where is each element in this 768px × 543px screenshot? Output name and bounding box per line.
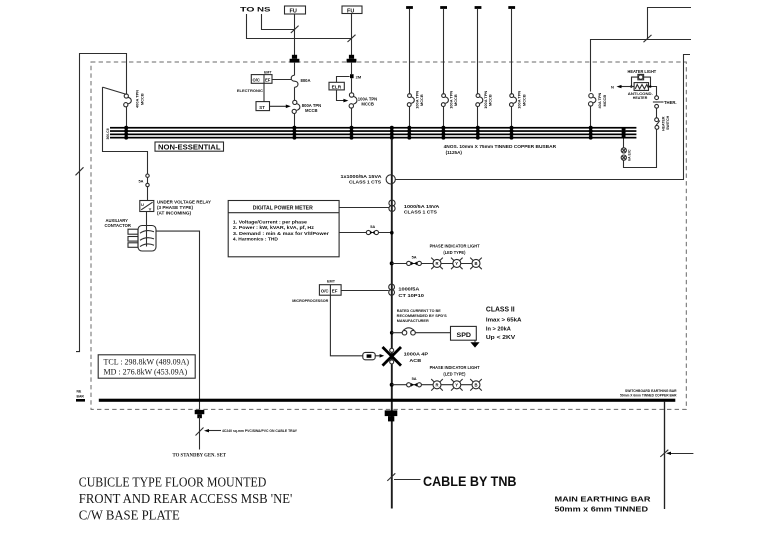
label CT1 xyxy=(341,174,383,185)
svg-text:2. Power : kW, kVAR, kVA,: 2. Power : kW, kVAR, kVA, pf, Hz xyxy=(233,225,314,230)
svg-text:TO: TO xyxy=(240,8,255,14)
earthing bar stub outside xyxy=(76,399,85,402)
label non-essential xyxy=(155,142,224,152)
contactor K1 auxiliary xyxy=(128,223,156,251)
wire FU2 drop xyxy=(351,14,353,56)
wire fuse to UV relay xyxy=(147,187,149,201)
circuit breaker ACB 1000A 4P xyxy=(383,347,429,366)
svg-text:5A: 5A xyxy=(370,224,375,229)
current transformer CT1 metering xyxy=(386,175,395,184)
svg-text:1000/5A 15VA: 1000/5A 15VA xyxy=(404,204,440,209)
svg-text:U: U xyxy=(141,202,144,207)
svg-text:RECOMMENDED BY SPD'S: RECOMMENDED BY SPD'S xyxy=(397,314,447,318)
wire slash on TNB cable xyxy=(387,473,395,481)
wire incomer1 below termination xyxy=(294,62,296,75)
circuit breaker incomer2 100A TPN MCCB xyxy=(349,93,377,108)
wire relay to ST box xyxy=(263,83,265,101)
fuse 5A phase indicator 1 xyxy=(407,255,422,266)
svg-text:CLASS 1 CTS: CLASS 1 CTS xyxy=(349,180,381,185)
cable termination incomer 2 xyxy=(347,55,357,63)
wire thermostat to heater xyxy=(649,87,657,96)
wire fuse to SPD xyxy=(415,332,450,334)
svg-text:RATED CURRENT TO BE: RATED CURRENT TO BE xyxy=(397,309,441,313)
wire slash on left stub xyxy=(76,167,84,175)
svg-text:MCCB: MCCB xyxy=(521,94,526,106)
svg-text:MAIN EARTHING BAR: MAIN EARTHING BAR xyxy=(555,496,651,503)
svg-text:ELR: ELR xyxy=(332,85,342,91)
svg-text:CT 10P10: CT 10P10 xyxy=(398,293,424,298)
wire ELR to toroid xyxy=(337,77,350,83)
lamp R phase 1 xyxy=(431,258,443,270)
svg-text:ACB: ACB xyxy=(409,358,422,363)
ground below SPD xyxy=(470,340,479,347)
wire UV relay feed xyxy=(103,87,148,174)
wire relay trip to ACB xyxy=(330,295,362,356)
wire left loop from MCCB up and down left side xyxy=(76,54,127,352)
fuse F2 heater xyxy=(621,155,626,160)
wire MCCB1 to busbar xyxy=(294,114,296,128)
label class II ratings xyxy=(486,305,522,341)
wire relay to trip coil xyxy=(272,79,291,81)
svg-text:4C240 sq.mm PVC/SWA/PVC ON CAB: 4C240 sq.mm PVC/SWA/PVC ON CABLE TRAY xyxy=(222,428,297,433)
svg-text:HEATER: HEATER xyxy=(633,95,648,100)
spare feeder 4 xyxy=(508,6,526,127)
spare feeder 2 xyxy=(440,6,458,127)
svg-text:MCCB: MCCB xyxy=(361,101,374,106)
lamp Y phase 1 xyxy=(451,258,463,270)
wire leader to earthing bar xyxy=(666,452,693,455)
svg-text:MCCB: MCCB xyxy=(488,94,493,106)
wire heater feeder top run xyxy=(591,40,692,92)
current transformer CT3 protection xyxy=(389,284,395,295)
svg-text:HEATER LIGHT: HEATER LIGHT xyxy=(628,69,657,74)
wire slash mark xyxy=(644,35,652,42)
svg-text:FRONT AND REAR ACCESS MSB 'NE': FRONT AND REAR ACCESS MSB 'NE' xyxy=(79,491,292,506)
junction phase indicator 2 tap xyxy=(390,383,394,387)
junction meter tap xyxy=(390,231,394,235)
svg-text:DIGITAL POWER METER: DIGITAL POWER METER xyxy=(253,205,313,211)
wire incomer2 below termination xyxy=(351,62,353,74)
wire switch to thermostat xyxy=(656,108,658,118)
trip coil 800A on incomer 1 xyxy=(291,75,298,87)
wire contactor to standby gen drop xyxy=(156,231,200,409)
svg-text:B: B xyxy=(475,383,478,388)
label heater switch rotated xyxy=(662,115,671,131)
lamp heater light xyxy=(628,69,657,86)
cable termination incomer 1 xyxy=(290,55,300,63)
svg-text:CLASS II: CLASS II xyxy=(486,305,515,314)
lamp B phase 2 xyxy=(470,379,482,391)
svg-text:MCCB: MCCB xyxy=(305,108,318,113)
svg-text:SPD: SPD xyxy=(457,332,472,339)
cable termination main riser xyxy=(385,410,398,421)
svg-text:(1125A): (1125A) xyxy=(446,150,463,155)
svg-text:MICROPROCESSOR: MICROPROCESSOR xyxy=(292,298,328,303)
lamp B phase 1 xyxy=(470,258,482,270)
svg-text:NON-ESSENTIAL: NON-ESSENTIAL xyxy=(158,143,221,152)
svg-text:TCL : 298.8kW (489.09A): TCL : 298.8kW (489.09A) xyxy=(104,357,190,366)
svg-text:MCCB: MCCB xyxy=(419,94,424,106)
wire toroid to MCCB2 xyxy=(351,78,353,93)
wire coil to MCCB xyxy=(294,87,296,100)
svg-text:B: B xyxy=(475,261,478,266)
svg-text:EMT: EMT xyxy=(264,71,272,75)
svg-text:1. Voltage/Current : per p: 1. Voltage/Current : per phase xyxy=(233,220,308,225)
svg-text:O/C: O/C xyxy=(321,289,330,294)
svg-text:O/C: O/C xyxy=(253,77,260,82)
enclosure dashed border xyxy=(91,62,686,409)
svg-text:N: N xyxy=(611,84,614,89)
lamp Y phase 2 xyxy=(451,379,463,391)
wire MCCB2 to busbar xyxy=(351,108,353,127)
fuse unit FU2 xyxy=(342,6,362,14)
svg-text:3. Demand : min & max fo: 3. Demand : min & max for V/I/Power xyxy=(233,231,329,236)
svg-text:300-C6: 300-C6 xyxy=(106,128,110,139)
junction phase indicator 1 tap xyxy=(390,261,394,265)
svg-text:Y: Y xyxy=(455,383,458,388)
svg-text:UNDER VOLTAGE RELAY: UNDER VOLTAGE RELAY xyxy=(157,199,211,204)
wire label1 to FU2 drop xyxy=(247,14,352,39)
wire meter voltage tap xyxy=(339,232,392,234)
wire UV relay to contactor xyxy=(146,212,148,224)
svg-text:50mm X 6mm TINNED COPPER BAR: 50mm X 6mm TINNED COPPER BAR xyxy=(620,394,677,398)
label main earthing bar xyxy=(555,496,651,513)
wire heater to neutral with arrow xyxy=(611,84,634,89)
svg-text:EF: EF xyxy=(332,289,338,294)
svg-text:50mm x 6mm TINNED: 50mm x 6mm TINNED xyxy=(555,506,649,513)
svg-text:5A: 5A xyxy=(412,255,417,260)
label CT3 xyxy=(398,287,424,298)
switch heater xyxy=(655,118,660,130)
label switchboard earthing bar xyxy=(620,389,677,398)
thermostat contact THER xyxy=(653,96,677,108)
wire standby gen cable xyxy=(199,417,201,450)
svg-text:V: V xyxy=(149,207,152,212)
svg-text:6A E/C: 6A E/C xyxy=(628,149,632,161)
svg-text:ST: ST xyxy=(259,105,265,110)
wire label2 to FU1 drop xyxy=(262,14,295,30)
svg-text:SWITCHBOARD EARTHING BAR: SWITCHBOARD EARTHING BAR xyxy=(625,389,677,393)
svg-text:CONTACTOR: CONTACTOR xyxy=(105,223,131,228)
wire CT1 secondary to top right xyxy=(395,55,690,180)
wire SPD branch xyxy=(392,332,402,334)
svg-text:Up < 2KV: Up < 2KV xyxy=(486,335,516,341)
svg-text:2M: 2M xyxy=(356,74,362,79)
svg-text:In > 20kA: In > 20kA xyxy=(486,327,511,333)
svg-text:FU: FU xyxy=(290,9,297,15)
svg-text:MCCB: MCCB xyxy=(453,94,458,106)
wire arrow into ACB xyxy=(375,354,384,358)
current transformer CT2 xyxy=(389,200,395,211)
wire slash on FU2 wire xyxy=(348,35,356,42)
relay O/C EF microprocessor xyxy=(319,285,341,296)
svg-text:PHASE INDICATOR LIGHT: PHASE INDICATOR LIGHT xyxy=(430,244,480,249)
surge protector SPD xyxy=(451,326,477,340)
wire slash on FU1 wire xyxy=(291,26,299,33)
svg-text:TO STANDBY GEN. SET: TO STANDBY GEN. SET xyxy=(173,454,227,459)
svg-text:CUBICLE TYPE FLOOR MOUNTED: CUBICLE TYPE FLOOR MOUNTED xyxy=(79,474,267,489)
spare feeder 1 xyxy=(406,6,424,127)
svg-text:NS: NS xyxy=(257,8,271,14)
svg-text:(LED TYPE): (LED TYPE) xyxy=(443,250,466,255)
svg-text:SWITCH: SWITCH xyxy=(666,115,670,130)
svg-text:THER.: THER. xyxy=(664,100,677,105)
svg-text:R: R xyxy=(436,261,439,266)
fuse 5A control xyxy=(139,174,150,187)
svg-text:C/W BASE PLATE: C/W BASE PLATE xyxy=(79,507,180,522)
heater circuit: fuse bank from busbar xyxy=(623,139,625,148)
relay U1 under voltage xyxy=(140,201,154,212)
fuse SPD xyxy=(402,328,415,335)
label phase indicator light 2 xyxy=(430,365,480,376)
svg-text:EMT: EMT xyxy=(327,280,336,284)
svg-text:(LED TYPE): (LED TYPE) xyxy=(443,372,466,377)
relay ELR xyxy=(329,82,344,90)
trip box ST lower xyxy=(363,352,375,359)
spare feeder 3 xyxy=(475,6,493,127)
label TCL MD box xyxy=(98,355,195,378)
wire fuse to heater switch xyxy=(624,129,657,167)
lamp R phase 2 xyxy=(431,379,443,391)
ZCT toroid on incomer 2 xyxy=(350,74,354,78)
label CT2 xyxy=(404,204,440,215)
wire ST arrow to MCCB1 xyxy=(270,105,291,109)
resistor anti-condensation heater xyxy=(628,83,653,100)
svg-text:(AT INCOMING): (AT INCOMING) xyxy=(157,210,192,215)
svg-text:EF: EF xyxy=(265,77,271,82)
svg-text:MCCB: MCCB xyxy=(139,93,144,105)
svg-text:HEATER: HEATER xyxy=(662,116,666,131)
cable termination standby gen xyxy=(195,410,205,418)
trip box ST incomer xyxy=(256,102,270,111)
wire CT3 to protection relay xyxy=(341,290,389,292)
svg-text:CABLE BY TNB: CABLE BY TNB xyxy=(423,473,517,489)
svg-text:1x1000/5A 15VA: 1x1000/5A 15VA xyxy=(341,174,383,179)
wire main earthing bar drop xyxy=(664,401,666,509)
circuit breaker left 400A TPN MCCB xyxy=(103,87,145,127)
label busbar rating xyxy=(444,144,557,155)
fuse F1 heater xyxy=(621,148,626,153)
wire slash on earthing drop xyxy=(660,450,668,457)
label rated current note xyxy=(397,309,447,323)
fuse 5A phase indicator 2 xyxy=(407,376,422,387)
circuit breaker incomer1 800A TPN MCCB xyxy=(292,100,321,113)
label phase indicator light 1 xyxy=(430,244,480,255)
fuse 5A meter xyxy=(366,224,378,234)
label cubicle type notes xyxy=(79,474,292,522)
svg-text:PHASE INDICATOR LIGHT: PHASE INDICATOR LIGHT xyxy=(430,365,480,370)
svg-text:4. Harmonics : THD: 4. Harmonics : THD xyxy=(233,236,278,241)
svg-text:1000/5A: 1000/5A xyxy=(398,287,420,292)
wire leader cable by tnb xyxy=(394,479,421,481)
junction dots on busbar xyxy=(124,126,625,140)
svg-text:CLASS 1 CTS: CLASS 1 CTS xyxy=(404,210,437,215)
meter M1 digital power meter xyxy=(228,201,339,257)
wire phase indicator 2 xyxy=(392,384,476,386)
svg-text:R: R xyxy=(436,383,439,388)
switchboard earthing bar thick xyxy=(99,399,676,402)
label under voltage relay xyxy=(157,199,211,215)
svg-text:Imax > 65kA: Imax > 65kA xyxy=(486,318,522,324)
wire CT2 to meter xyxy=(339,207,389,209)
svg-text:MANUFACTURER: MANUFACTURER xyxy=(397,319,429,323)
svg-text:Y: Y xyxy=(455,261,458,266)
busbar 4NOS tinned copper xyxy=(110,127,636,139)
label standby cable xyxy=(204,428,297,433)
wire phase indicator 1 xyxy=(392,263,476,265)
wire slash on standby cable xyxy=(196,428,204,436)
main riser wire xyxy=(391,139,393,509)
svg-text:(3 PHASE TYPE): (3 PHASE TYPE) xyxy=(157,205,194,210)
junction heater lamp branch xyxy=(630,85,632,87)
svg-text:4NOS. 10mm X 75mm TINNED COPPE: 4NOS. 10mm X 75mm TINNED COPPER BUSBAR xyxy=(444,144,557,149)
wire ELR trip to MCCB2 with arrow xyxy=(337,90,344,101)
svg-text:NE: NE xyxy=(77,389,82,393)
junction SPD tap xyxy=(390,331,394,335)
wire FU1 drop xyxy=(294,14,296,55)
svg-text:MCCB: MCCB xyxy=(602,95,607,107)
svg-text:5A: 5A xyxy=(412,376,417,381)
label earthing bar stub xyxy=(77,389,85,398)
label auxiliary contactor xyxy=(105,218,131,228)
svg-text:5A: 5A xyxy=(139,178,144,183)
svg-text:MD : 276.8kW (453.09A): MD : 276.8kW (453.09A) xyxy=(104,367,188,376)
relay O/C EF electronic incomer xyxy=(251,75,272,84)
circuit breaker heater 40A TPN MCCB xyxy=(589,92,607,127)
fuse unit FU1 xyxy=(285,6,306,14)
svg-text:ELECTRONIC: ELECTRONIC xyxy=(237,88,263,93)
svg-text:FU: FU xyxy=(347,8,354,14)
svg-text:BAR: BAR xyxy=(77,394,85,398)
svg-text:800A: 800A xyxy=(301,78,311,83)
wire heater feeder upper branch xyxy=(648,8,692,40)
svg-text:1000A 4P: 1000A 4P xyxy=(404,351,429,356)
